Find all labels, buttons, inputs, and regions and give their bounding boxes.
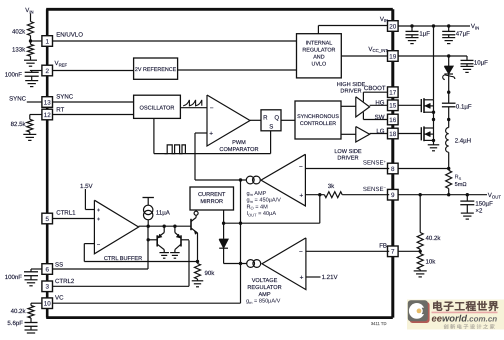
node Q3 emitter junction (196, 260, 199, 263)
svg-text:SS: SS (55, 261, 63, 268)
svg-text:INTERNAL: INTERNAL (306, 41, 333, 47)
svg-text:16: 16 (389, 117, 397, 124)
wire SW (362, 112, 364, 119)
wire buffer output (139, 225, 191, 227)
svg-text:0.1µF: 0.1µF (456, 103, 472, 110)
resistor 82.5k (27, 119, 33, 132)
svg-text:90k: 90k (205, 270, 216, 277)
wire 3k to SENSE- pin (342, 194, 389, 196)
node SENSE- junction cap (466, 193, 469, 196)
svg-text:CBOOT: CBOOT (364, 85, 386, 92)
svg-text:40.2k: 40.2k (426, 235, 442, 242)
block RS latch (261, 110, 281, 131)
wire CTRL2 riser (52, 285, 189, 287)
wire cross link mirror node to gm plus input (224, 222, 320, 224)
svg-text:8: 8 (391, 166, 395, 173)
svg-text:CONTROLLER: CONTROLLER (300, 121, 336, 127)
wire gm amp plus with 3k (305, 194, 324, 196)
wire CBOOT (362, 92, 364, 101)
wire 82.5k to ground (29, 132, 31, 134)
svg-text:创新电子设计之家: 创新电子设计之家 (444, 323, 497, 330)
wire pin 10 to VC network (31, 302, 42, 304)
square wave symbol (165, 145, 186, 154)
wire 2V reference to internal regulator (178, 69, 297, 71)
svg-text:−: − (210, 105, 214, 112)
transistor QA (148, 239, 157, 241)
svg-text:5.6pF: 5.6pF (7, 320, 23, 327)
ground below 10k (414, 270, 427, 272)
wire PWM plus input (195, 132, 207, 134)
resistor 40.2k at VC (28, 306, 34, 319)
svg-text:12: 12 (44, 112, 52, 119)
svg-text:10µF: 10µF (474, 59, 488, 66)
svg-text:2V REFERENCE: 2V REFERENCE (135, 67, 177, 73)
svg-text:17: 17 (389, 90, 397, 97)
svg-text:IOUT = 40µA: IOUT = 40µA (247, 211, 277, 217)
watermark logo C shape (409, 303, 425, 319)
wire mirror output to gm node (240, 180, 242, 264)
wire 1.5V to buffer (84, 189, 86, 210)
svg-text:×2: ×2 (475, 207, 483, 214)
node CBOOT junction (447, 91, 450, 94)
resistor 3k (324, 192, 342, 198)
block INTERNAL REGULATOR AND UVLO (297, 34, 342, 78)
svg-text:15: 15 (389, 103, 397, 110)
sawtooth waveform symbol (183, 100, 202, 106)
node gm plus input junction (318, 193, 321, 196)
svg-text:1.5V: 1.5V (80, 183, 93, 190)
watermark underline (432, 311, 498, 313)
resistor RS 5mohm (446, 170, 452, 188)
ground below M2 (428, 144, 440, 146)
svg-text:SYNC: SYNC (9, 95, 27, 102)
svg-text:AMP: AMP (258, 292, 270, 298)
pin 7 FB (388, 246, 399, 257)
pin 6 SS (42, 264, 53, 275)
svg-text:CTRL1: CTRL1 (56, 210, 76, 217)
capacitor 0.1uF bootstrap (448, 92, 450, 103)
ground below 47uF (448, 35, 450, 38)
capacitor 100nF at VREF (25, 71, 39, 73)
wire VCC_INT pin to external (398, 55, 467, 57)
svg-text:6: 6 (45, 266, 49, 273)
svg-text:100nF: 100nF (5, 72, 23, 79)
node VIN rail junction 3 (447, 24, 450, 27)
op-amp PWM comparator (207, 95, 250, 146)
current source 11uA (143, 197, 154, 199)
pin 8 SENSE+ (388, 163, 399, 174)
ground below 5.6pF (25, 329, 38, 331)
pin 1 EN/UVLO (42, 36, 53, 47)
block 2V REFERENCE (134, 58, 178, 79)
wire RT to oscillator (52, 114, 134, 116)
svg-text:VOLTAGE: VOLTAGE (252, 278, 278, 284)
node SW junction MOSFET (432, 118, 435, 121)
ground below 10uF (466, 64, 468, 66)
node SENSE+ junction (447, 167, 450, 170)
svg-text:40.2k: 40.2k (11, 308, 27, 315)
pin 16 SW (388, 114, 399, 125)
node FB junction (419, 250, 422, 253)
wire LG (370, 133, 390, 135)
transistor M2 low side MOSFET (420, 127, 422, 140)
node SW junction cap (447, 118, 450, 121)
svg-text:SENSE+: SENSE+ (363, 159, 387, 167)
ground below SS cap (25, 279, 38, 281)
svg-text:HIGH SIDE: HIGH SIDE (337, 82, 366, 88)
svg-text:EN/UVLO: EN/UVLO (56, 32, 83, 39)
capacitor 47uF (448, 26, 450, 31)
block SYNCHRONOUS CONTROLLER (295, 101, 341, 139)
svg-text:DRIVER: DRIVER (340, 89, 361, 95)
capacitor 100nF at SS (24, 271, 38, 273)
node mirror-diode junction (222, 222, 225, 225)
svg-text:MIRROR: MIRROR (200, 199, 223, 205)
wire CTRL1 to ctrl buffer (52, 218, 94, 220)
svg-text:RS: RS (455, 175, 462, 181)
ground below 150uF (466, 205, 468, 213)
wire FB to regulator amp minus (306, 250, 389, 252)
svg-text:20: 20 (389, 23, 397, 30)
resistor 90k (197, 262, 199, 264)
svg-text:1µF: 1µF (419, 31, 430, 38)
wire FB pin to divider (398, 250, 421, 252)
svg-text:Q: Q (274, 114, 279, 121)
resistor 402k (28, 22, 34, 36)
svg-text:OSCILLATOR: OSCILLATOR (140, 105, 175, 111)
svg-text:RT: RT (56, 107, 64, 114)
svg-text:−: − (97, 242, 101, 248)
pin 9 SENSE- (388, 189, 399, 200)
svg-text:CTRL2: CTRL2 (55, 278, 75, 285)
pin 18 LG (388, 128, 399, 139)
svg-text:133k: 133k (12, 47, 26, 54)
node SENSE- junction RS (447, 193, 450, 196)
ground below 133k (24, 59, 37, 61)
svg-text:3k: 3k (328, 183, 335, 190)
wire pin 12 to 82.5k (30, 114, 43, 116)
watermark logo square (410, 302, 430, 323)
svg-text:100nF: 100nF (5, 274, 23, 281)
svg-text:13: 13 (44, 99, 52, 106)
svg-text:LOW SIDE: LOW SIDE (334, 149, 362, 155)
svg-text:9: 9 (391, 192, 395, 199)
svg-text:UVLO: UVLO (312, 62, 327, 68)
wire cap to ground (31, 76, 33, 80)
wire controller to high side driver (341, 105, 356, 107)
svg-text:SYNC: SYNC (56, 94, 74, 101)
transistor Q3 (190, 219, 192, 230)
ground below QA (159, 252, 169, 254)
node divider junction (29, 39, 32, 42)
wire latch Q to synchronous controller (281, 119, 295, 121)
pin 15 HG (388, 100, 399, 111)
wire VIN to 402k (30, 14, 32, 22)
svg-text:+: + (209, 131, 213, 138)
node VIN rail junction 1 (410, 24, 413, 27)
svg-text:VC: VC (55, 295, 64, 302)
wire SYNC to pin 13 (27, 101, 43, 103)
ground below 82.5k (23, 133, 36, 135)
svg-text:5: 5 (45, 216, 49, 223)
svg-text:DRIVER: DRIVER (337, 156, 358, 162)
wire 1.21V reference to plus input (306, 276, 321, 278)
IC boundary left edge (46, 9, 49, 317)
wire SENSE+ to gm amp minus (305, 168, 389, 170)
wire oscillator to PWM comparator minus (180, 107, 207, 109)
op-amp CTRL buffer (94, 200, 138, 254)
wire PWM output to RS latch (250, 119, 261, 121)
svg-text:1: 1 (45, 38, 49, 45)
IC boundary bottom edge (46, 316, 393, 319)
ground below QB (170, 252, 180, 254)
svg-text:电子工程世界: 电子工程世界 (432, 300, 499, 313)
wire EN/UVLO to internal regulator (52, 40, 296, 42)
svg-text:R: R (263, 114, 268, 121)
pin 12 RT (42, 109, 53, 120)
svg-text:SYNCHRONOUS: SYNCHRONOUS (297, 114, 339, 120)
op-amp voltage regulator amp (262, 238, 306, 290)
inductor 2.4uH (448, 120, 450, 128)
svg-text:19: 19 (389, 53, 397, 60)
svg-text:eeworld.com.cn: eeworld.com.cn (432, 313, 498, 324)
resistor 40.2k divider (419, 195, 421, 233)
current source symbol regulator amp output (247, 260, 255, 268)
wire internal regulator to VCC_INT pin (341, 55, 389, 57)
wire 402k to node (30, 36, 32, 41)
block OSCILLATOR (134, 95, 181, 118)
wire oscillator to latch S input (153, 118, 155, 153)
ground below 1uF (411, 35, 413, 38)
capacitor 150uF x2 (466, 195, 468, 201)
resistor 133k (30, 41, 32, 44)
wire SENSE- to VOUT (398, 194, 487, 196)
wire VC to error amp output (53, 302, 241, 304)
pin 17 CBOOT (388, 87, 399, 98)
op-amp gm amp (261, 154, 305, 206)
wire VIN pin to external rail (398, 25, 470, 27)
wire diode to voltage regulator amp output (224, 263, 247, 265)
node buffer output junction (147, 225, 150, 228)
ground below 90k (192, 280, 204, 282)
node VIN rail junction 2 (432, 24, 435, 27)
svg-text:gm AMP: gm AMP (247, 191, 267, 197)
svg-text:REGULATOR: REGULATOR (302, 48, 335, 54)
pin 3 CTRL2 (42, 281, 53, 292)
wire SENSE+ to sense resistor (398, 168, 449, 170)
svg-text:3411 TD: 3411 TD (371, 321, 387, 326)
wire mirror bottom to diode branch (223, 210, 225, 239)
block CURRENT MIRROR (190, 187, 234, 210)
wire VIN pin to internal regulator top (318, 25, 388, 27)
svg-text:LG: LG (376, 128, 384, 135)
wire SYNC to oscillator (52, 101, 134, 103)
svg-text:HG: HG (375, 100, 384, 107)
svg-text:−: − (299, 248, 303, 255)
capacitor 5.6pF (25, 322, 38, 324)
IC boundary top edge (46, 8, 393, 11)
svg-text:47µF: 47µF (456, 31, 470, 38)
buffer high side driver (356, 97, 370, 117)
svg-text:S: S (269, 124, 273, 131)
diode D2 (219, 239, 228, 248)
pin 19 VCC_INT (388, 51, 399, 62)
capacitor 1uF (411, 26, 413, 31)
wire 5.6pF to ground (30, 326, 32, 330)
wire HG (370, 104, 390, 106)
svg-text:+: + (299, 192, 303, 199)
pin 2 VREF (42, 65, 53, 76)
svg-text:10k: 10k (426, 258, 437, 265)
wire controller to low side driver (341, 133, 356, 135)
svg-text:10: 10 (44, 301, 52, 308)
pin 13 SYNC (42, 97, 53, 108)
svg-text:SENSE−: SENSE− (363, 185, 387, 193)
wire pin 2 to 100nF cap (30, 70, 42, 72)
wire 133k to ground (30, 56, 32, 60)
wire 40.2k to 5.6pF (30, 318, 32, 322)
svg-text:+: + (300, 275, 304, 282)
node VCC_INT junction (447, 54, 450, 57)
svg-text:SW: SW (375, 114, 385, 121)
wire VREF to 2V reference (52, 70, 134, 72)
svg-text:402k: 402k (12, 28, 26, 35)
svg-text:1.21V: 1.21V (322, 274, 339, 281)
svg-text:82.5k: 82.5k (11, 121, 27, 128)
wire divider to FB (419, 249, 421, 253)
svg-text:RO = 4M: RO = 4M (247, 204, 269, 210)
wire node to pin 1 (31, 40, 43, 42)
diode D1 bootstrap (448, 56, 450, 66)
transistor QB (181, 239, 189, 241)
svg-text:3: 3 (45, 284, 49, 291)
resistor 10k (417, 254, 423, 270)
svg-text:PWM: PWM (232, 140, 246, 146)
pin 10 VC (42, 298, 53, 309)
svg-text:7: 7 (391, 249, 395, 256)
ground below 100nF (25, 80, 38, 82)
svg-text:CURRENT: CURRENT (198, 192, 226, 198)
node SENSE- junction divider (419, 193, 422, 196)
svg-text:COMPARATOR: COMPARATOR (219, 147, 258, 153)
node gm amp output junction (239, 178, 242, 181)
current source symbol gm amp output (246, 176, 254, 184)
svg-text:REGULATOR: REGULATOR (247, 285, 281, 291)
svg-text:+: + (97, 217, 101, 223)
svg-text:−: − (299, 163, 303, 170)
buffer low side driver (356, 127, 370, 143)
svg-text:2: 2 (45, 68, 49, 75)
wire buffer feedback (84, 243, 94, 245)
svg-text:2.4µH: 2.4µH (455, 138, 471, 145)
svg-text:18: 18 (389, 131, 397, 138)
pin 5 CTRL1 (42, 213, 53, 224)
node error amp output (239, 262, 242, 265)
svg-text:AND: AND (313, 55, 324, 61)
svg-text:5mΩ: 5mΩ (455, 182, 467, 188)
svg-text:FB: FB (379, 243, 387, 250)
transistor M1 high side MOSFET (420, 99, 422, 112)
wire drain riser from VIN rail (433, 26, 435, 100)
wire 90k to ground (197, 279, 199, 281)
watermark background (407, 300, 504, 330)
wire 10k to ground (419, 270, 421, 271)
mirror input circle (195, 210, 197, 211)
capacitor 10uF (466, 56, 468, 60)
svg-text:11µA: 11µA (156, 209, 171, 216)
wire SS to buffer output node (52, 268, 148, 270)
pin 20 VIN (388, 21, 399, 32)
wire pin 6 to 100nF cap (31, 268, 42, 270)
wire SS cap to ground (30, 276, 32, 280)
svg-text:+: + (97, 208, 101, 214)
IC boundary right edge (391, 9, 394, 317)
